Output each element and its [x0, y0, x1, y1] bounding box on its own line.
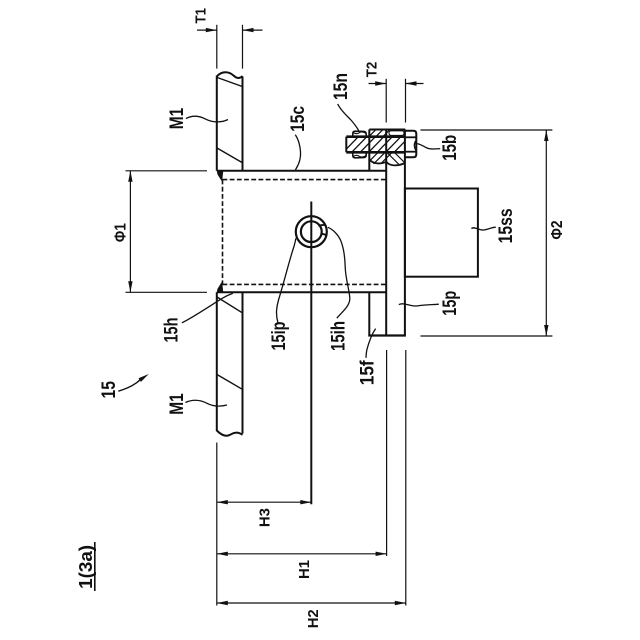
bolt 15b shank top thread edge: [346, 135, 405, 138]
bolt 15b hex head outline: [405, 131, 416, 158]
svg-text:15b: 15b: [440, 135, 461, 161]
dimension Phi2 extension line top: [421, 129, 553, 131]
svg-text:M1: M1: [167, 107, 188, 129]
svg-text:15c: 15c: [288, 106, 309, 132]
svg-text:Φ2: Φ2: [549, 220, 566, 239]
svg-text:1(3a): 1(3a): [76, 545, 96, 589]
flange lip wedge top: [217, 171, 223, 181]
flange lip wedge bottom: [217, 281, 223, 291]
svg-text:15: 15: [99, 381, 120, 399]
svg-text:M1: M1: [167, 393, 188, 415]
bolt head facet line upper: [405, 136, 416, 138]
panel M1 lower hatch line 1: [217, 297, 242, 313]
hole notch: [318, 224, 324, 227]
center axis line: [310, 202, 312, 505]
leader 15ss: [471, 227, 496, 230]
dimension T1 extension line right: [242, 25, 244, 69]
dimension T1 right arrow: [243, 28, 263, 32]
dimension T2 left arrow: [369, 81, 387, 85]
svg-text:15ih: 15ih: [329, 321, 350, 351]
cylinder 15c hidden outline left: [222, 180, 224, 285]
leader 15ip: [276, 238, 295, 322]
bolt 15b shank left end: [345, 137, 347, 153]
cylinder 15c hidden outline bottom: [223, 283, 387, 285]
svg-text:15ip: 15ip: [269, 322, 290, 351]
dimension T1 extension line left: [216, 25, 218, 69]
plate 15p right face: [404, 130, 406, 336]
foot 15f bottom edge: [368, 334, 406, 336]
svg-text:H3: H3: [258, 508, 274, 527]
svg-text:15p: 15p: [440, 291, 461, 316]
leader M1 upper: [186, 116, 228, 122]
leader M1 lower: [186, 400, 228, 406]
pilot hole inner circle 15ih: [301, 221, 322, 242]
leader 15h: [182, 293, 233, 322]
nut hatch upper band: [368, 129, 405, 138]
dimension H3 line with arrows: [217, 500, 311, 504]
leader 15f: [366, 329, 376, 358]
weld bead wavy line: [369, 159, 405, 165]
svg-text:H1: H1: [297, 560, 313, 579]
leader 15n: [338, 104, 359, 131]
svg-text:15ss: 15ss: [496, 208, 517, 243]
H dims left extension line: [216, 443, 218, 606]
panel M1 upper break wave: [217, 72, 243, 78]
panel M1 lower break wave: [217, 431, 243, 436]
panel M1 lower right edge: [242, 292, 244, 433]
nut hatch lower band: [367, 152, 406, 165]
dimension H1 line with arrows: [217, 552, 387, 556]
leader 15p: [399, 304, 439, 306]
bolt head facet line lower: [405, 151, 416, 153]
bump bottom squiggle: [353, 155, 366, 157]
cylinder 15c hidden outline top: [223, 179, 387, 181]
dimension Phi1 extension line top: [126, 170, 208, 172]
dimension T1 left arrow: [197, 28, 217, 32]
foot 15f left edge: [368, 292, 370, 335]
figure label underline: [94, 542, 96, 591]
leader 15b: [417, 144, 440, 149]
bolt 15b shank bottom thread edge: [346, 151, 405, 154]
shaft 15ss outline: [405, 189, 478, 277]
dimension T2 right arrow: [406, 81, 424, 85]
dimension Phi1 extension line bottom: [126, 291, 208, 293]
bolt shank hatch: [342, 136, 410, 154]
H1 right extension line: [386, 350, 388, 556]
dimension T2 extension line left: [385, 79, 387, 123]
pilot hole outer circle 15ip: [296, 216, 327, 247]
dimension Phi1 line with arrows: [128, 171, 132, 292]
bolt head chamfer arc: [414, 141, 416, 151]
leader 15c: [295, 135, 300, 170]
leader 15ih: [328, 227, 350, 318]
bump top squiggle: [353, 132, 366, 134]
dimension T2 extension line right: [405, 79, 407, 123]
bolt thread end bump bottom: [353, 152, 366, 158]
svg-text:T1: T1: [194, 8, 210, 24]
reference arrow 15: [118, 374, 149, 391]
panel M1 upper right edge: [242, 77, 244, 171]
dimension Phi2 line with arrows: [544, 130, 548, 336]
panel M1 lower hatch line 2: [217, 375, 242, 390]
dimension H2 line with arrows: [217, 601, 406, 605]
svg-text:15f: 15f: [357, 360, 378, 386]
bolt thread end bump top: [353, 131, 366, 137]
grommet flange top line: [217, 170, 386, 172]
panel M1 lower left edge: [216, 292, 218, 431]
panel M1 upper hatch line 2: [217, 148, 242, 163]
grommet flange bottom line: [217, 291, 386, 293]
nut thread relief window: [389, 131, 404, 136]
svg-text:T2: T2: [365, 62, 381, 78]
svg-text:Φ1: Φ1: [112, 223, 129, 242]
svg-text:H2: H2: [306, 609, 322, 628]
panel M1 upper left edge: [216, 76, 218, 171]
dimension Phi2 extension line bottom: [421, 335, 553, 337]
plate 15p left face: [385, 130, 387, 336]
H2 right extension line: [405, 350, 407, 606]
weld nut 15n top edge: [369, 129, 405, 131]
weld nut 15n left face: [368, 130, 370, 171]
panel M1 upper hatch line 1: [217, 78, 242, 87]
svg-text:15h: 15h: [161, 318, 182, 343]
svg-text:15n: 15n: [331, 73, 352, 100]
